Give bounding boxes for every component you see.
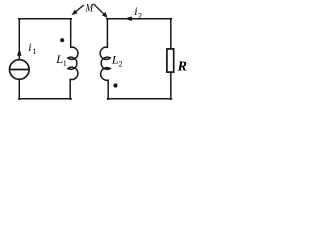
wire right side lower xyxy=(170,73,172,99)
wire bottom-left segment xyxy=(19,98,72,100)
mutual inductance arrow right xyxy=(93,4,103,14)
wire right side upper xyxy=(170,19,172,49)
dot marker L2 xyxy=(113,83,117,87)
svg-text:i: i xyxy=(28,40,31,54)
mutual inductance arrow left xyxy=(76,5,84,11)
wire L1 branch lower xyxy=(69,79,71,99)
wire L1 branch upper xyxy=(70,19,72,48)
svg-text:R: R xyxy=(177,59,187,74)
wire top-left segment xyxy=(19,18,72,20)
wire top-right segment xyxy=(107,18,172,20)
inductor L2 coil xyxy=(100,47,110,80)
svg-text:1: 1 xyxy=(32,46,36,56)
wire L2 branch lower xyxy=(107,80,109,99)
arrow i2 (left, on top-right wire) xyxy=(125,16,132,21)
svg-text:M: M xyxy=(85,2,94,14)
wire L2 branch upper xyxy=(106,19,108,48)
wire bottom-right segment xyxy=(108,98,172,100)
resistor R body xyxy=(167,49,174,72)
svg-text:2: 2 xyxy=(138,10,142,20)
wire left side lower xyxy=(18,79,20,99)
svg-text:2: 2 xyxy=(119,60,123,69)
inductor L1 coil xyxy=(68,47,78,79)
svg-text:1: 1 xyxy=(63,59,67,68)
dot marker L1 xyxy=(60,38,64,42)
arrow i1 (up) xyxy=(17,49,22,56)
current source I1 bar xyxy=(10,69,29,71)
current source I1 circle xyxy=(9,60,29,80)
wire left side upper xyxy=(18,19,20,60)
